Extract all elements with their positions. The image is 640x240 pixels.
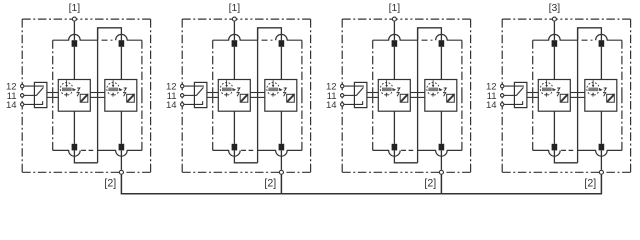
svg-text:[1]: [1] [389, 3, 401, 14]
svg-text:14: 14 [166, 100, 177, 111]
svg-text:[3]: [3] [549, 3, 561, 14]
svg-text:[1]: [1] [229, 3, 241, 14]
svg-text:[2]: [2] [264, 177, 276, 189]
svg-text:[1]: [1] [69, 3, 81, 14]
svg-text:[2]: [2] [584, 177, 596, 189]
svg-text:14: 14 [6, 100, 17, 111]
svg-text:[2]: [2] [104, 177, 116, 189]
svg-text:14: 14 [486, 100, 497, 111]
svg-text:14: 14 [326, 100, 337, 111]
svg-text:[2]: [2] [424, 177, 436, 189]
